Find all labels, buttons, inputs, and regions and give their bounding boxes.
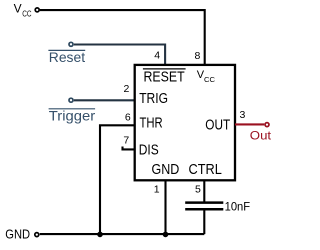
svg-text:5: 5 — [195, 183, 201, 195]
junction dot THR/ground — [97, 232, 103, 238]
wire DIS stub — [123, 147, 135, 150]
svg-text:Out: Out — [250, 129, 272, 143]
junction dot GND pin/ground — [163, 232, 169, 238]
terminal Trigger — [69, 98, 73, 102]
wire Trigger to pin 2 — [74, 99, 135, 101]
svg-text:THR: THR — [140, 115, 163, 131]
terminal Out — [265, 123, 269, 127]
wire OUT pin 3 — [235, 123, 264, 125]
terminal GND — [35, 233, 39, 237]
svg-text:OUT: OUT — [205, 118, 230, 134]
terminal Reset — [69, 42, 73, 46]
wire CTRL pin 5 down to capacitor — [203, 180, 205, 201]
wire GND pin 1 down — [164, 180, 166, 234]
wire Reset to pin 4 — [74, 45, 165, 65]
svg-text:TRIG: TRIG — [139, 91, 168, 107]
svg-text:CTRL: CTRL — [189, 162, 222, 178]
svg-text:3: 3 — [240, 109, 246, 121]
svg-text:7: 7 — [123, 135, 129, 147]
svg-text:DIS: DIS — [139, 143, 159, 159]
svg-text:Trigger: Trigger — [49, 107, 96, 123]
ground rail wire — [40, 233, 205, 235]
wire capacitor to ground rail — [203, 211, 205, 235]
overline Reset — [48, 49, 85, 51]
svg-text:10nF: 10nF — [225, 199, 251, 213]
overline Trigger — [49, 108, 96, 110]
svg-text:Reset: Reset — [49, 49, 85, 65]
svg-text:GND: GND — [152, 162, 180, 178]
capacitor C1 bottom plate — [185, 208, 223, 211]
svg-text:CC: CC — [204, 77, 215, 84]
svg-text:GND: GND — [5, 227, 30, 241]
svg-text:6: 6 — [125, 111, 131, 123]
svg-text:8: 8 — [195, 50, 201, 62]
svg-text:1: 1 — [154, 183, 160, 195]
svg-text:V: V — [14, 2, 22, 16]
IC U1 555 timer body — [135, 65, 235, 180]
capacitor C1 top plate — [185, 201, 223, 204]
wire THR down to ground rail — [100, 125, 135, 234]
terminal VCC — [35, 8, 39, 12]
svg-text:CC: CC — [22, 9, 31, 18]
svg-text:2: 2 — [123, 83, 129, 95]
label VCC (top-left supply) — [14, 2, 32, 19]
svg-text:4: 4 — [154, 50, 160, 62]
svg-text:RESET: RESET — [144, 70, 185, 86]
wire VCC to pin 8 — [40, 10, 205, 64]
